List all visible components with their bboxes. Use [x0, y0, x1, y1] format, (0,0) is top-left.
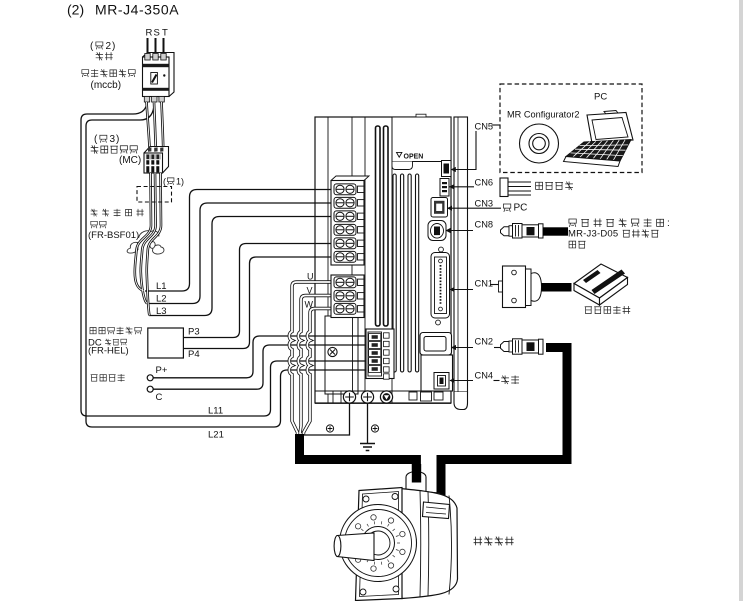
- svg-text:(FR-BSF01): (FR-BSF01): [88, 230, 139, 241]
- svg-text:(2): (2): [67, 2, 84, 18]
- svg-text:MR Configurator2: MR Configurator2: [507, 110, 580, 120]
- svg-text:L1: L1: [156, 281, 167, 292]
- svg-text:R: R: [146, 28, 153, 39]
- svg-text:CN1: CN1: [475, 279, 494, 289]
- svg-text:PC: PC: [594, 92, 607, 103]
- svg-text:1): 1): [176, 177, 184, 187]
- svg-text:L3: L3: [156, 306, 167, 317]
- svg-text:P3: P3: [188, 327, 200, 338]
- svg-text:L21: L21: [208, 430, 224, 441]
- svg-text:CN6: CN6: [475, 178, 494, 188]
- svg-text:CN2: CN2: [475, 337, 494, 347]
- svg-text:L11: L11: [208, 406, 223, 417]
- svg-text:2: 2: [106, 41, 112, 52]
- svg-text:C: C: [156, 392, 163, 403]
- svg-text:L2: L2: [156, 294, 167, 305]
- svg-text:): ): [116, 134, 119, 145]
- svg-text:(FR-HEL): (FR-HEL): [88, 346, 129, 357]
- svg-text:P+: P+: [156, 365, 168, 376]
- svg-text:CN3: CN3: [475, 198, 494, 208]
- svg-text:): ): [112, 41, 115, 52]
- svg-text:(mccb): (mccb): [91, 80, 122, 91]
- svg-text::: :: [667, 218, 670, 229]
- svg-text:W: W: [305, 300, 314, 310]
- svg-text:CN8: CN8: [475, 220, 494, 230]
- svg-text:(: (: [163, 177, 166, 187]
- svg-text:MR-J4-350A: MR-J4-350A: [95, 2, 179, 18]
- svg-text:V: V: [307, 286, 313, 296]
- svg-text:CN5: CN5: [475, 122, 494, 132]
- svg-text:OPEN: OPEN: [404, 153, 424, 160]
- svg-text:P4: P4: [188, 349, 200, 360]
- svg-text:CN4: CN4: [475, 371, 494, 381]
- svg-text:S: S: [154, 28, 160, 39]
- svg-text:MR-J3-D05: MR-J3-D05: [568, 229, 618, 240]
- svg-text:(MC): (MC): [119, 155, 141, 166]
- svg-text:T: T: [162, 28, 168, 39]
- svg-text:PC: PC: [514, 203, 528, 214]
- svg-text:U: U: [307, 272, 314, 282]
- svg-text:3: 3: [110, 134, 116, 145]
